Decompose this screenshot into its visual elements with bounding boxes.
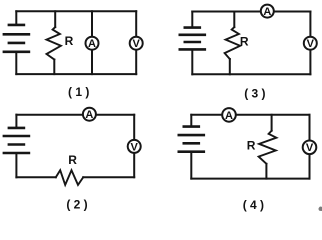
resistor R (circuit 4, vertical zigzag) (259, 131, 277, 164)
voltmeter V (circuit 4) (303, 141, 317, 155)
wire: circuit 2 bottom right segment (83, 176, 134, 178)
svg-text:R: R (247, 139, 256, 153)
wire: circuit 2 top conductor (16, 114, 134, 116)
wire: circuit 4 left edge upper segment (190, 115, 192, 126)
svg-text:R: R (65, 34, 74, 48)
wire: circuit 3 left edge upper segment (191, 12, 193, 27)
resistor R (circuit 2, horizontal zigzag) (56, 170, 83, 185)
wire: circuit 3 resistor branch bottom stub (229, 59, 231, 74)
wire: circuit 2 bottom left segment (16, 176, 55, 178)
wire: circuit 2 left edge lower segment (15, 154, 17, 178)
wire: circuit 1 resistor branch top stub (54, 11, 56, 27)
svg-text:V: V (306, 142, 314, 154)
battery B2 (circuit 2) (4, 128, 29, 153)
wire: circuit 3 right edge (309, 12, 311, 75)
svg-text:( 2 ): ( 2 ) (66, 197, 87, 211)
wire: circuit 4 bottom conductor (191, 178, 309, 180)
wire: circuit 2 right edge (133, 115, 135, 178)
wire: circuit 2 left edge upper segment (15, 115, 17, 128)
wire: circuit 4 top conductor (191, 114, 309, 116)
wire: circuit 4 left edge lower segment (190, 152, 192, 178)
wire: circuit 1 left edge lower segment (15, 52, 17, 74)
wire: circuit 3 resistor branch top stub (233, 12, 235, 28)
wire: circuit 1 top conductor (16, 10, 136, 12)
svg-text:( 3 ): ( 3 ) (244, 86, 265, 100)
stray mark at right edge (cropped cursor blob) (319, 207, 322, 211)
ammeter A (circuit 1) (86, 37, 99, 50)
wire: circuit 3 left edge lower segment (191, 50, 193, 74)
wire: circuit 4 resistor branch top stub (271, 115, 273, 131)
svg-text:A: A (225, 110, 233, 122)
svg-text:A: A (85, 109, 93, 121)
wire: circuit 3 top conductor (192, 11, 310, 13)
resistor R (circuit 1, vertical zigzag) (47, 27, 61, 59)
wire: circuit 1 bottom conductor (16, 73, 136, 75)
voltmeter V (circuit 1) (130, 37, 143, 50)
wire: circuit 3 bottom conductor (192, 73, 310, 75)
wire: circuit 1 left edge upper segment (15, 11, 17, 24)
wire: circuit 1 voltmeter branch (right edge) (135, 11, 137, 74)
wire: circuit 4 resistor branch bottom stub (265, 164, 267, 179)
svg-text:A: A (263, 6, 271, 18)
svg-text:( 1 ): ( 1 ) (68, 85, 89, 99)
battery B1 (circuit 1) (4, 25, 29, 52)
battery B3 (circuit 3) (180, 28, 205, 50)
wire: circuit 1 ammeter branch (91, 11, 93, 74)
wire: circuit 4 right edge (309, 115, 311, 179)
wire: circuit 1 resistor branch bottom stub (53, 60, 55, 75)
ammeter A (circuit 4) (222, 108, 236, 122)
voltmeter V (circuit 3) (304, 37, 317, 50)
svg-text:( 4 ): ( 4 ) (243, 198, 264, 212)
svg-text:V: V (131, 141, 139, 153)
voltmeter V (circuit 2) (128, 140, 141, 153)
svg-text:R: R (68, 153, 77, 167)
ammeter A (circuit 3) (261, 5, 274, 18)
svg-text:R: R (240, 35, 249, 49)
svg-text:V: V (133, 38, 141, 50)
resistor R (circuit 3, vertical zigzag) (225, 27, 241, 59)
svg-text:V: V (307, 38, 315, 50)
ammeter A (circuit 2) (83, 108, 96, 121)
battery B4 (circuit 4) (179, 127, 204, 152)
svg-text:A: A (88, 38, 96, 50)
